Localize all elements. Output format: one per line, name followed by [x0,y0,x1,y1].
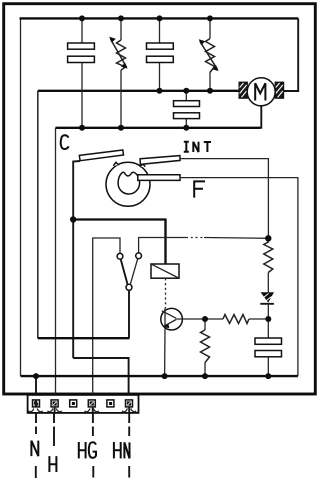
node VR2 top [207,15,213,21]
wire: transistor emitter down [164,330,166,376]
wire: contact B branch [139,238,186,254]
mechanical link relay to transistor [165,278,167,308]
node Q1 output [202,316,208,322]
wire: R2 right [249,318,268,320]
transistor Q1 [161,308,183,330]
label HN [114,442,130,458]
switch S2 common contact [126,284,132,290]
node R3 on bottom bus [202,373,208,379]
wire: capacitor C1 top lead [81,18,83,43]
wire: C4 to bottom bus [267,357,269,376]
wire: VR2 top lead [209,18,211,38]
label H [49,456,56,472]
resistor R2 [223,315,249,324]
node D1 / R2 [265,316,271,322]
node INT / R1 top [265,235,271,241]
wire: N drop [35,376,37,399]
node C3 bottom [183,125,189,131]
resistor R1 [264,238,273,272]
node C4 on bottom bus [265,373,271,379]
wire: R1 to diode [267,273,269,293]
motor M1 [239,78,283,106]
label F [194,181,205,197]
wire: INT line [180,159,268,236]
wire: VR2 bottom lead [209,73,211,91]
wire: capacitor C3 top lead [185,91,187,101]
wire: return row to second bus drop [38,337,130,339]
wire: third bus [56,127,261,129]
terminal hooks [28,409,136,412]
wire: left loop vertical [20,19,22,376]
node Q1 emitter on bottom bus [162,373,168,379]
cam timer wheel [106,162,150,206]
wire: node R2 left [205,318,223,320]
wire: C3 bottom lead [185,119,187,128]
wire: H drop [55,128,57,400]
node C1 bottom [79,125,85,131]
switch S2 blade to A [121,259,128,285]
capacitor C2 [147,43,174,63]
node C2 bottom [157,88,163,94]
label N [31,441,38,457]
wire: C1 bottom lead [81,63,83,128]
node C2 top [157,15,163,21]
switch blade INT [140,156,180,165]
switch S2 contact A [117,253,123,259]
node relay feed [70,216,76,222]
wire: stub to R3 [204,319,206,330]
wire: capacitor C2 top lead [159,18,161,43]
node N on bottom bus [33,373,39,379]
relay coil K1 [151,264,179,278]
wire: transistor output [176,318,205,320]
wire: right drop to motor [284,18,299,91]
label INT [184,142,211,152]
capacitor C4 [255,338,282,357]
wire: H terminal lead [53,408,56,447]
variable resistor VR2 [199,39,219,73]
wire: N terminal lead [35,400,37,479]
wire: second bus left drop [37,91,39,338]
switch blade F [138,175,180,181]
wire: HG terminal lead [92,408,95,478]
node C3 top [183,88,189,94]
wire: HG branch [93,238,120,400]
wire: motor bottom drop [259,105,261,128]
node VR1 top [118,15,124,21]
wire: relay feed bus [73,220,165,265]
wire: HN return row [73,358,128,400]
wire: VR1 bottom lead [120,70,122,128]
wire: second bus [38,90,240,92]
wire: HN terminal lead [128,408,130,478]
resistor R3 [201,330,210,363]
switch S2 blade to B [130,259,138,285]
wire: F line [180,178,298,377]
wire: top supply bus [20,17,299,19]
wire: common contact drop [128,290,130,338]
node VR2 bottom [207,88,213,94]
wire: VR1 top lead [120,18,122,40]
wire: C2 bottom lead [159,63,161,91]
wire: diode to node [267,304,269,338]
node VR1 bottom [118,125,124,131]
capacitor C1 [68,43,95,63]
wire: blade C pivot lead [73,161,80,358]
capacitor C3 [174,101,200,119]
label C [61,135,69,149]
switch blade C [79,150,123,161]
label HG [79,442,96,458]
wire: R3 to bus [204,363,206,377]
node C1 top [79,15,85,21]
switch S2 contact B [136,253,142,259]
outer enclosure box [4,4,316,394]
variable resistor VR1 [109,37,127,70]
wire: bottom bus [21,375,298,377]
diode D1 [260,292,274,304]
wire: to INT node [204,237,268,240]
terminal block TB1 [28,395,139,413]
mechanical link dash [186,237,204,239]
